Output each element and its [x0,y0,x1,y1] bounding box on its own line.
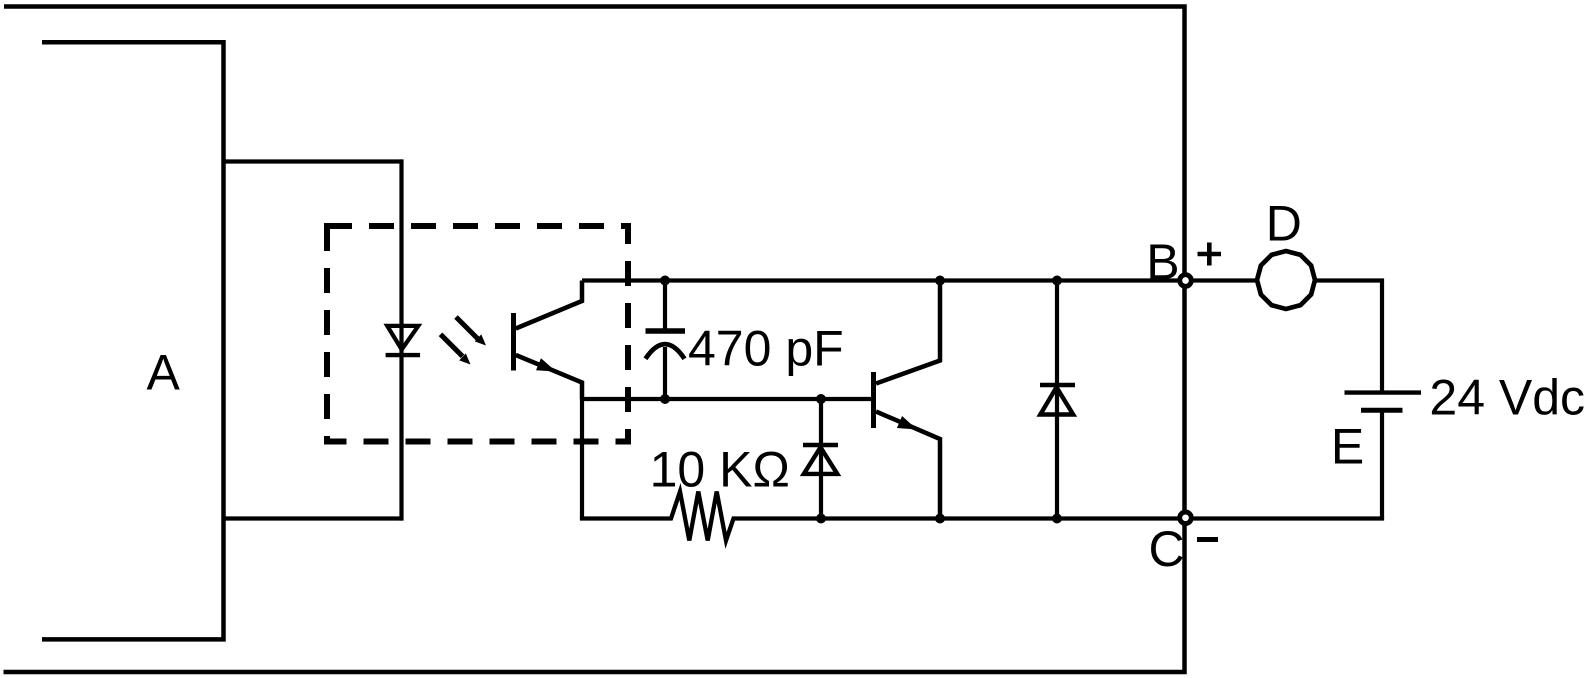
wire from A to LED anode [224,159,402,163]
svg-text:10 KΩ: 10 KΩ [650,442,790,498]
transistor Q1 collector [876,281,940,384]
optocoupler dashed box [327,226,628,442]
capacitor C1 470 pF [646,281,686,400]
wire LED cathode to A [224,516,402,520]
plus sign [1198,243,1222,266]
wire lower rail to Q1 base [582,397,872,401]
svg-text:D: D [1266,196,1302,252]
junction dot bottom rail / zener [816,514,826,524]
svg-text:E: E [1331,419,1364,475]
svg-text:24 Vdc: 24 Vdc [1429,370,1584,426]
transistor Q1 base bar [871,372,876,428]
outer enclosure border (open on left) [4,7,1185,673]
flyback diode D3 [1040,385,1075,415]
battery E [1345,393,1422,519]
wire D to battery [1314,281,1382,391]
svg-text:470 pF: 470 pF [688,321,844,377]
phototransistor base bar [511,313,516,371]
block A outline [42,42,224,639]
wire top rail to terminal B [582,278,1185,282]
wire emitter down to bottom rail [580,399,584,519]
wire terminal B to load D [1186,278,1263,282]
svg-text:C: C [1149,521,1185,577]
terminal C [1180,512,1192,524]
LED diode [386,326,421,355]
junction dot top rail / diode D3 [1052,276,1062,286]
junction dot bottom rail / Q1 emitter [935,514,945,524]
resistor R1 and bottom rail [580,492,1384,541]
transistor Q1 emitter [876,412,940,519]
phototransistor collector [516,281,582,329]
light arrow 2 [441,334,471,364]
zener diode wire [819,399,823,519]
zener diode D2 [803,445,838,474]
wire LED vertical [399,159,403,520]
junction dot top rail / capacitor [660,276,670,286]
load D circle [1257,251,1315,309]
terminal B [1180,275,1192,287]
svg-text:B: B [1146,234,1179,290]
minus sign [1197,537,1218,542]
svg-text:A: A [147,344,181,400]
light arrow 1 [456,317,486,346]
junction dot bottom rail / diode D3 [1052,514,1062,524]
flyback diode wire [1055,281,1059,519]
junction dot lower rail / zener [816,394,826,404]
phototransistor emitter [516,355,582,399]
junction dot lower rail / capacitor [660,394,670,404]
junction dot top rail / Q1 collector [935,276,945,286]
